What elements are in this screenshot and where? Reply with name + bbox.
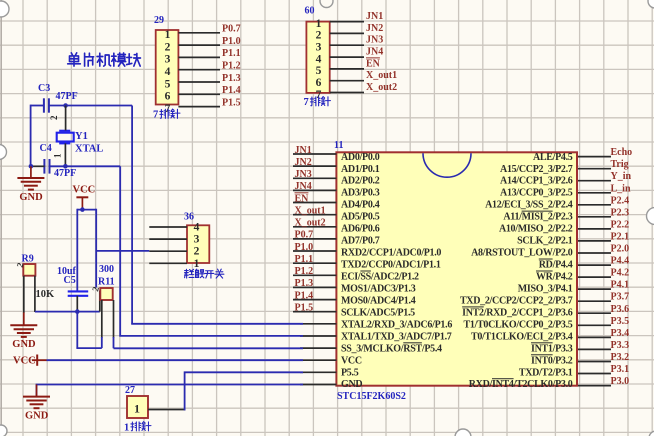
wire R9 left pin down [23, 276, 25, 313]
svg-text:MOS0/ADC4/P1.4: MOS0/ADC4/P1.4 [341, 295, 416, 306]
svg-text:Echo: Echo [611, 147, 633, 158]
svg-text:JN2: JN2 [366, 23, 383, 34]
svg-text:Trig: Trig [611, 159, 629, 170]
svg-text:P3.6: P3.6 [611, 304, 630, 315]
svg-text:EN: EN [366, 58, 381, 69]
wire MCU right pin row 7 (P2.2) [578, 228, 611, 230]
wire MCU right pin row 14 (P3.6) [578, 312, 611, 314]
wire MCU right pin row 18 (P3.2) [578, 361, 611, 363]
svg-text:3: 3 [194, 234, 200, 246]
svg-text:P3.1: P3.1 [611, 364, 630, 375]
svg-text:P2.4: P2.4 [611, 195, 630, 206]
wire R11 right pin down to RST [113, 300, 115, 338]
svg-text:P0.7: P0.7 [295, 230, 314, 241]
wire MCU right pin row 20 (P3.0) [578, 385, 611, 387]
svg-text:1: 1 [194, 258, 200, 270]
svg-text:AD5/P0.5: AD5/P0.5 [341, 212, 380, 223]
pin 1 of switch 36 [149, 262, 187, 264]
wire C5 node down to RST row [76, 312, 78, 349]
wire to MCU left pin 7 (X_out2) [293, 226, 336, 228]
svg-text:5: 5 [165, 78, 171, 90]
wire to MCU left pin 4 (JN4) [293, 189, 336, 191]
svg-text:JN1: JN1 [366, 11, 383, 22]
wire to MCU left pin 3 (JN3) [293, 177, 336, 179]
wire 27 up to P5.5 row [185, 372, 303, 410]
wire MCU right pin row 5 (P2.4) [578, 204, 611, 206]
svg-text:TXD/T2/P3.1: TXD/T2/P3.1 [519, 367, 573, 378]
svg-text:C4: C4 [40, 143, 52, 154]
svg-text:P1.1: P1.1 [222, 48, 241, 59]
resistor R11 300 [90, 264, 115, 300]
wire MCU right pin row 6 (P2.3) [578, 216, 611, 218]
svg-text:WR/P4.2: WR/P4.2 [536, 272, 573, 283]
wire MCU right pin row 16 (P3.4) [578, 336, 611, 338]
svg-text:47PF: 47PF [56, 91, 78, 102]
svg-text:5: 5 [316, 65, 322, 77]
svg-text:X_out2: X_out2 [366, 82, 397, 93]
title 单片机模块 [68, 53, 141, 66]
svg-text:INT2/RXD_2/CCP1_2/P3.6: INT2/RXD_2/CCP1_2/P3.6 [462, 307, 573, 318]
wire vertical C3-left to C4-left [30, 105, 32, 167]
svg-text:STC15F2K60S2: STC15F2K60S2 [337, 391, 406, 402]
svg-text:P2.2: P2.2 [611, 219, 630, 230]
svg-text:A10/MISO_2/P2.2: A10/MISO_2/P2.2 [499, 224, 573, 235]
wire R11 top pin [99, 291, 101, 312]
svg-text:1: 1 [134, 402, 140, 416]
wire XTAL2 row to MCU [131, 323, 303, 325]
svg-text:RD/P4.4: RD/P4.4 [539, 260, 573, 271]
wire to MCU left pin 8 (P0.7) [293, 238, 336, 240]
svg-text:VCC: VCC [341, 355, 362, 366]
svg-text:SCLK_2/P2.1: SCLK_2/P2.1 [517, 236, 573, 247]
svg-text:R9: R9 [22, 254, 34, 265]
svg-text:A14/CCP1_3/P2.6: A14/CCP1_3/P2.6 [500, 176, 573, 187]
svg-text:P3.4: P3.4 [611, 328, 630, 339]
svg-text:11: 11 [334, 140, 343, 151]
junction node C5/RC [75, 309, 80, 314]
svg-text:6: 6 [316, 77, 322, 89]
svg-text:XTAL2/RXD_3/ADC6/P1.6: XTAL2/RXD_3/ADC6/P1.6 [341, 319, 452, 330]
ground GND (R9) [10, 313, 37, 351]
svg-text:2: 2 [316, 30, 322, 42]
svg-text:1: 1 [124, 423, 129, 434]
svg-text:A11/MISI_2/P2.3: A11/MISI_2/P2.3 [503, 212, 572, 223]
svg-text:4: 4 [165, 66, 171, 78]
svg-text:JN4: JN4 [295, 181, 312, 192]
wire vertical to XTAL2 row [131, 106, 133, 324]
wire MCU right pin row 17 (P3.3) [578, 348, 611, 350]
pin 3 of switch 36 [149, 238, 187, 240]
svg-text:60: 60 [305, 6, 315, 17]
svg-text:R11: R11 [98, 277, 115, 288]
svg-text:AD7/P0.7: AD7/P0.7 [341, 236, 380, 247]
wire vertical to XTAL1 row [119, 166, 121, 336]
svg-text:1: 1 [165, 29, 171, 41]
svg-text:SS_3/MCLKO/RST/P5.4: SS_3/MCLKO/RST/P5.4 [341, 343, 442, 354]
svg-text:JN3: JN3 [295, 169, 312, 180]
svg-text:P1.2: P1.2 [222, 61, 241, 72]
svg-text:EN: EN [295, 193, 310, 204]
wire to MCU left pin 5 (EN) [293, 202, 336, 204]
resistor R9 10K [15, 254, 55, 301]
wire to MCU left pin 10 (P1.1) [293, 262, 336, 264]
wire C5 bottom to RC row [76, 296, 78, 312]
wire to MCU left pin 14 (P1.5) [293, 311, 336, 313]
svg-text:T1/T0CLKO/CCP0_2/P3.5: T1/T0CLKO/CCP0_2/P3.5 [464, 319, 573, 330]
svg-text:X_out1: X_out1 [366, 70, 397, 81]
MCU left pin 15 stub [300, 323, 336, 325]
svg-text:RXD2/CCP1/ADC0/P1.0: RXD2/CCP1/ADC0/P1.0 [341, 248, 441, 259]
svg-text:7: 7 [304, 97, 309, 108]
wire C4 right to corner [50, 165, 121, 167]
ground GND (crystal) [17, 166, 44, 203]
svg-text:P1.3: P1.3 [222, 73, 241, 84]
wire VCC down to R11 [95, 209, 97, 288]
pin 2 of header 29 [178, 44, 220, 46]
wire to MCU left pin 1 (JN1) [293, 153, 336, 155]
svg-text:X_out1: X_out1 [295, 205, 326, 216]
svg-text:AD4/P0.4: AD4/P0.4 [341, 200, 380, 211]
svg-text:AD6/P0.6: AD6/P0.6 [341, 224, 380, 235]
svg-text:L_in: L_in [611, 183, 631, 194]
svg-text:P3.2: P3.2 [611, 352, 630, 363]
wire VCC horizontal [77, 209, 96, 211]
svg-text:AD3/P0.3: AD3/P0.3 [341, 188, 380, 199]
pin 1 of header 29 [178, 32, 220, 34]
wire MCU right pin row 11 (P4.2) [578, 276, 611, 278]
svg-text:29: 29 [154, 15, 164, 26]
capacitor C5 10uf [57, 266, 88, 296]
junction node C3/Y1 [63, 103, 68, 108]
svg-text:P4.4: P4.4 [611, 256, 630, 267]
pin 4 of header 60 [330, 56, 364, 58]
svg-text:MOS1/ADC3/P1.3: MOS1/ADC3/P1.3 [341, 283, 416, 294]
wire VCC down to C5 top [76, 209, 78, 291]
junction node C4 left [29, 164, 34, 169]
svg-text:SCLK/ADC5/P1.5: SCLK/ADC5/P1.5 [341, 307, 415, 318]
svg-text:P1.0: P1.0 [222, 36, 241, 47]
svg-text:XTAL: XTAL [75, 144, 103, 155]
svg-text:3: 3 [316, 42, 322, 54]
svg-text:2: 2 [49, 115, 59, 120]
wire C3 left to vertical [31, 105, 44, 107]
svg-text:7: 7 [153, 110, 158, 121]
svg-text:P1.0: P1.0 [295, 242, 314, 253]
svg-text:GND: GND [12, 339, 36, 350]
svg-text:GND: GND [25, 411, 49, 422]
wire VCC row to MCU [47, 359, 304, 361]
wire MCU right pin row 8 (P2.1) [578, 240, 611, 242]
wire R11 left pin down [101, 300, 103, 338]
wire to MCU left pin 6 (X_out1) [293, 214, 336, 216]
pin 4 of header 29 [178, 69, 220, 71]
svg-text:P1.5: P1.5 [295, 302, 314, 313]
svg-text:P2.1: P2.1 [611, 231, 630, 242]
svg-text:A15/CCP2_3/P2.7: A15/CCP2_3/P2.7 [500, 164, 573, 175]
pin 1 of header 60 [330, 21, 364, 23]
connector 27 1-pin header [124, 385, 151, 434]
svg-text:VCC: VCC [73, 185, 96, 196]
wire to MCU left pin 9 (P1.0) [293, 250, 336, 252]
svg-text:Y1: Y1 [75, 131, 88, 142]
pin 5 of header 60 [330, 68, 364, 70]
pin 7 of header 29 [178, 106, 220, 108]
wire MCU right pin row 9 (P2.0) [578, 252, 611, 254]
pin 2 of header 60 [330, 32, 364, 34]
pin 6 of header 29 [178, 93, 220, 95]
wire Y1 bottom pin [64, 143, 66, 166]
svg-text:3: 3 [165, 54, 171, 66]
wire C4 left segment [31, 165, 45, 167]
svg-text:4: 4 [316, 53, 322, 65]
svg-text:4: 4 [194, 222, 200, 234]
svg-text:1: 1 [53, 153, 63, 158]
svg-text:2: 2 [165, 41, 171, 53]
svg-text:JN3: JN3 [366, 35, 383, 46]
svg-text:A8/RSTOUT_LOW/P2.0: A8/RSTOUT_LOW/P2.0 [471, 248, 573, 259]
svg-text:X_out2: X_out2 [295, 218, 326, 229]
wire MCU right pin row 12 (P4.1) [578, 288, 611, 290]
svg-text:XTAL1/TXD_3/ADC7/P1.7: XTAL1/TXD_3/ADC7/P1.7 [341, 331, 452, 342]
connector 29 7-pin header [153, 15, 220, 121]
svg-text:P4.1: P4.1 [611, 280, 630, 291]
svg-text:P1.4: P1.4 [222, 85, 241, 96]
svg-text:AD2/P0.2: AD2/P0.2 [341, 176, 380, 187]
pin 4 of switch 36 [149, 226, 187, 228]
pin 7 of header 60 [330, 92, 364, 94]
wire RST row to MCU [114, 347, 304, 349]
svg-text:GND: GND [19, 192, 43, 203]
svg-text:P3.0: P3.0 [611, 376, 630, 387]
pin 5 of header 29 [178, 81, 220, 83]
MCU left pin 16 stub [300, 335, 336, 337]
ground GND (bottom) [23, 385, 50, 422]
svg-text:TXD2/CCP0/ADC1/P1.1: TXD2/CCP0/ADC1/P1.1 [341, 260, 441, 271]
svg-text:TXD_2/CCP2/CCP2_2/P3.7: TXD_2/CCP2/CCP2_2/P3.7 [460, 295, 573, 306]
svg-text:P1.5: P1.5 [222, 97, 241, 108]
svg-text:C5: C5 [64, 275, 76, 286]
svg-text:ECI/SS/ADC2/P1.2: ECI/SS/ADC2/P1.2 [341, 272, 419, 283]
junction node C4/Y1 [63, 164, 68, 169]
wire MCU right pin row 3 (Y_in) [578, 180, 611, 182]
MCU left pin 20 stub [300, 384, 336, 386]
svg-text:INT1/P3.3: INT1/P3.3 [531, 343, 573, 354]
svg-text:36: 36 [184, 212, 194, 223]
svg-text:6: 6 [165, 91, 171, 103]
wire to MCU left pin 12 (P1.3) [293, 286, 336, 288]
wire R9 right pin down [34, 276, 36, 312]
svg-text:P3.5: P3.5 [611, 316, 630, 327]
pin 2 of switch 36 [149, 250, 187, 252]
svg-text:ALE/P4.5: ALE/P4.5 [533, 152, 573, 163]
wire XTAL1 row to MCU [119, 335, 303, 337]
wire Y1 top pin [65, 106, 67, 131]
wire to MCU left pin 11 (P1.2) [293, 274, 336, 276]
wire RC node row [35, 311, 100, 313]
svg-text:T0/T1CLKO/ECI_2/P3.4: T0/T1CLKO/ECI_2/P3.4 [471, 331, 573, 342]
svg-text:A12/ECI_3/SS_2/P2.4: A12/ECI_3/SS_2/P2.4 [485, 200, 573, 211]
connector 36 touch switch [149, 212, 224, 279]
svg-text:47PF: 47PF [54, 168, 76, 179]
wire MCU right pin row 2 (Trig) [578, 168, 611, 170]
svg-text:JN2: JN2 [295, 157, 312, 168]
svg-text:P1.2: P1.2 [295, 266, 314, 277]
svg-text:27: 27 [125, 385, 135, 396]
crystal Y1 XTAL [57, 131, 104, 155]
svg-text:300: 300 [99, 264, 114, 275]
svg-text:RXD/INT4/T2CLK0/P3.0: RXD/INT4/T2CLK0/P3.0 [469, 379, 573, 390]
marker circle above header 60 [320, 0, 333, 8]
pin 6 of header 60 [330, 80, 364, 82]
svg-text:INT0/P3.2: INT0/P3.2 [531, 355, 573, 366]
wire MCU right pin row 19 (P3.1) [578, 373, 611, 375]
svg-text:P0.7: P0.7 [222, 24, 241, 35]
wire MCU right pin row 15 (P3.5) [578, 324, 611, 326]
wire RST row left piece [76, 347, 101, 349]
svg-text:2: 2 [194, 246, 200, 258]
power VCC (reset circuit) [73, 185, 96, 210]
wire C3 right to corner [49, 105, 132, 107]
svg-text:AD1/P0.1: AD1/P0.1 [341, 164, 380, 175]
svg-text:JN1: JN1 [295, 145, 312, 156]
wire MCU right pin row 10 (P4.4) [578, 264, 611, 266]
wire to MCU left pin 13 (P1.4) [293, 299, 336, 301]
pin-1 notch arc [423, 153, 471, 177]
svg-text:P3.7: P3.7 [611, 292, 630, 303]
svg-text:AD0/P0.0: AD0/P0.0 [341, 152, 380, 163]
svg-text:C3: C3 [38, 83, 50, 94]
capacitor C3 47PF [38, 83, 78, 120]
wire GND row to MCU [37, 385, 304, 396]
svg-text:JN4: JN4 [366, 47, 383, 58]
wire MCU right pin row 13 (P3.7) [578, 300, 611, 302]
svg-text:P2.3: P2.3 [611, 207, 630, 218]
svg-text:1: 1 [316, 18, 322, 30]
svg-text:Y_in: Y_in [611, 171, 632, 182]
svg-text:GND: GND [341, 379, 362, 390]
power VCC port (bottom) [13, 355, 47, 367]
MCU left pin 19 stub [300, 371, 336, 373]
connector 60 7-pin header [304, 0, 365, 108]
MCU left pin 18 stub [300, 359, 336, 361]
wire MCU right pin row 1 (Echo) [578, 156, 611, 158]
svg-text:P1.3: P1.3 [295, 278, 314, 289]
MCU U11 STC15F2K60S2 [334, 140, 577, 402]
svg-text:P1.4: P1.4 [295, 290, 314, 301]
svg-text:P3.3: P3.3 [611, 340, 630, 351]
wire pin of 27 [148, 409, 186, 411]
svg-text:MISO_3/P4.1: MISO_3/P4.1 [518, 283, 573, 294]
capacitor C4 47PF [40, 143, 77, 179]
svg-text:P1.1: P1.1 [295, 254, 314, 265]
junction node VCC [80, 207, 85, 212]
svg-text:10K: 10K [36, 289, 56, 300]
wire to MCU left pin 2 (JN2) [293, 165, 336, 167]
pin 3 of header 60 [330, 44, 364, 46]
wire MCU right pin row 4 (L_in) [578, 192, 611, 194]
svg-text:P2.0: P2.0 [611, 244, 630, 255]
pin 3 of header 29 [178, 56, 220, 58]
svg-text:P5.5: P5.5 [341, 367, 359, 378]
MCU left pin 17 stub [300, 347, 336, 349]
svg-text:P4.2: P4.2 [611, 268, 630, 279]
svg-text:A13/CCP0_3/P2.5: A13/CCP0_3/P2.5 [500, 188, 573, 199]
wire to switch pin 2 [96, 250, 149, 252]
